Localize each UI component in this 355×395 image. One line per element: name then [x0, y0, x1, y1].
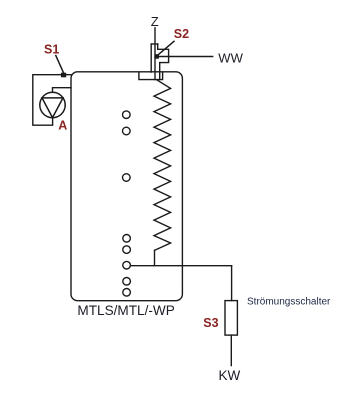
wire down to S3: [231, 266, 233, 301]
svg-text:Strömungsschalter: Strömungsschalter: [247, 297, 331, 308]
sensor S2 square: [154, 54, 159, 59]
wire S3 to KW: [230, 335, 232, 366]
svg-text:S3: S3: [203, 316, 218, 330]
pipe Z right edge with WW branch: [158, 44, 169, 80]
pump loop pipes: [33, 75, 71, 126]
S1 pointer line: [56, 56, 64, 74]
wire WW: [157, 56, 213, 58]
wire coil outlet to right: [130, 265, 231, 267]
pump A circle: [40, 92, 65, 117]
svg-text:A: A: [58, 119, 67, 133]
svg-text:S2: S2: [174, 27, 189, 41]
tank MTLS/MTL/-WP: [71, 72, 182, 301]
wire Z center line: [154, 28, 156, 80]
pump outlet pipe: [53, 88, 72, 93]
flow switch S3 body: [225, 301, 237, 336]
pipe Z top edge: [151, 43, 158, 45]
tank inlet sleeve: [139, 72, 163, 80]
pump A triangle: [42, 98, 63, 118]
svg-text:KW: KW: [219, 368, 241, 383]
svg-text:Z: Z: [151, 14, 159, 29]
heating coil: [154, 80, 171, 251]
svg-text:S1: S1: [44, 42, 59, 56]
svg-text:WW: WW: [218, 51, 243, 66]
sensor well circles: [123, 111, 131, 296]
S2 pointer line: [158, 41, 175, 55]
coil bottom drop wire: [154, 250, 156, 265]
sensor S1 square: [61, 73, 66, 78]
svg-text:MTLS/MTL/-WP: MTLS/MTL/-WP: [77, 303, 174, 318]
pipe Z left edge: [150, 44, 152, 72]
